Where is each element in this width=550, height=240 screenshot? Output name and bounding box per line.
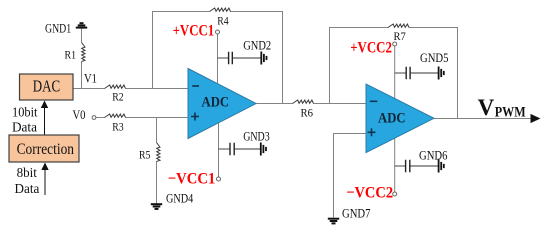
svg-text:ADC: ADC — [202, 94, 230, 110]
svg-text:PWM: PWM — [495, 104, 526, 120]
svg-text:Correction: Correction — [17, 141, 74, 158]
svg-text:R4: R4 — [217, 13, 228, 27]
svg-text:R1: R1 — [65, 48, 77, 62]
svg-text:GND7: GND7 — [342, 206, 371, 220]
svg-text:R6: R6 — [301, 106, 314, 120]
svg-text:−VCC2: −VCC2 — [346, 184, 393, 201]
svg-text:R3: R3 — [112, 120, 123, 134]
svg-text:GND2: GND2 — [243, 38, 271, 52]
svg-text:R7: R7 — [394, 29, 406, 43]
svg-text:8bit: 8bit — [17, 166, 37, 181]
svg-text:GND4: GND4 — [166, 191, 194, 205]
svg-text:10bit: 10bit — [12, 105, 38, 120]
svg-text:−VCC1: −VCC1 — [168, 171, 216, 188]
svg-text:+VCC1: +VCC1 — [173, 22, 215, 39]
svg-text:V0: V0 — [73, 107, 86, 122]
svg-text:GND5: GND5 — [420, 51, 449, 65]
svg-text:V1: V1 — [84, 71, 97, 86]
svg-text:GND1: GND1 — [45, 22, 71, 36]
svg-text:Data: Data — [15, 182, 41, 197]
svg-text:ADC: ADC — [378, 111, 406, 127]
svg-text:R2: R2 — [112, 90, 123, 104]
svg-text:R5: R5 — [139, 148, 150, 162]
svg-text:Data: Data — [12, 120, 38, 135]
svg-text:DAC: DAC — [33, 77, 60, 96]
svg-text:GND3: GND3 — [243, 129, 270, 143]
svg-text:+VCC2: +VCC2 — [350, 40, 392, 57]
svg-text:V: V — [478, 95, 495, 120]
svg-text:GND6: GND6 — [419, 148, 448, 162]
